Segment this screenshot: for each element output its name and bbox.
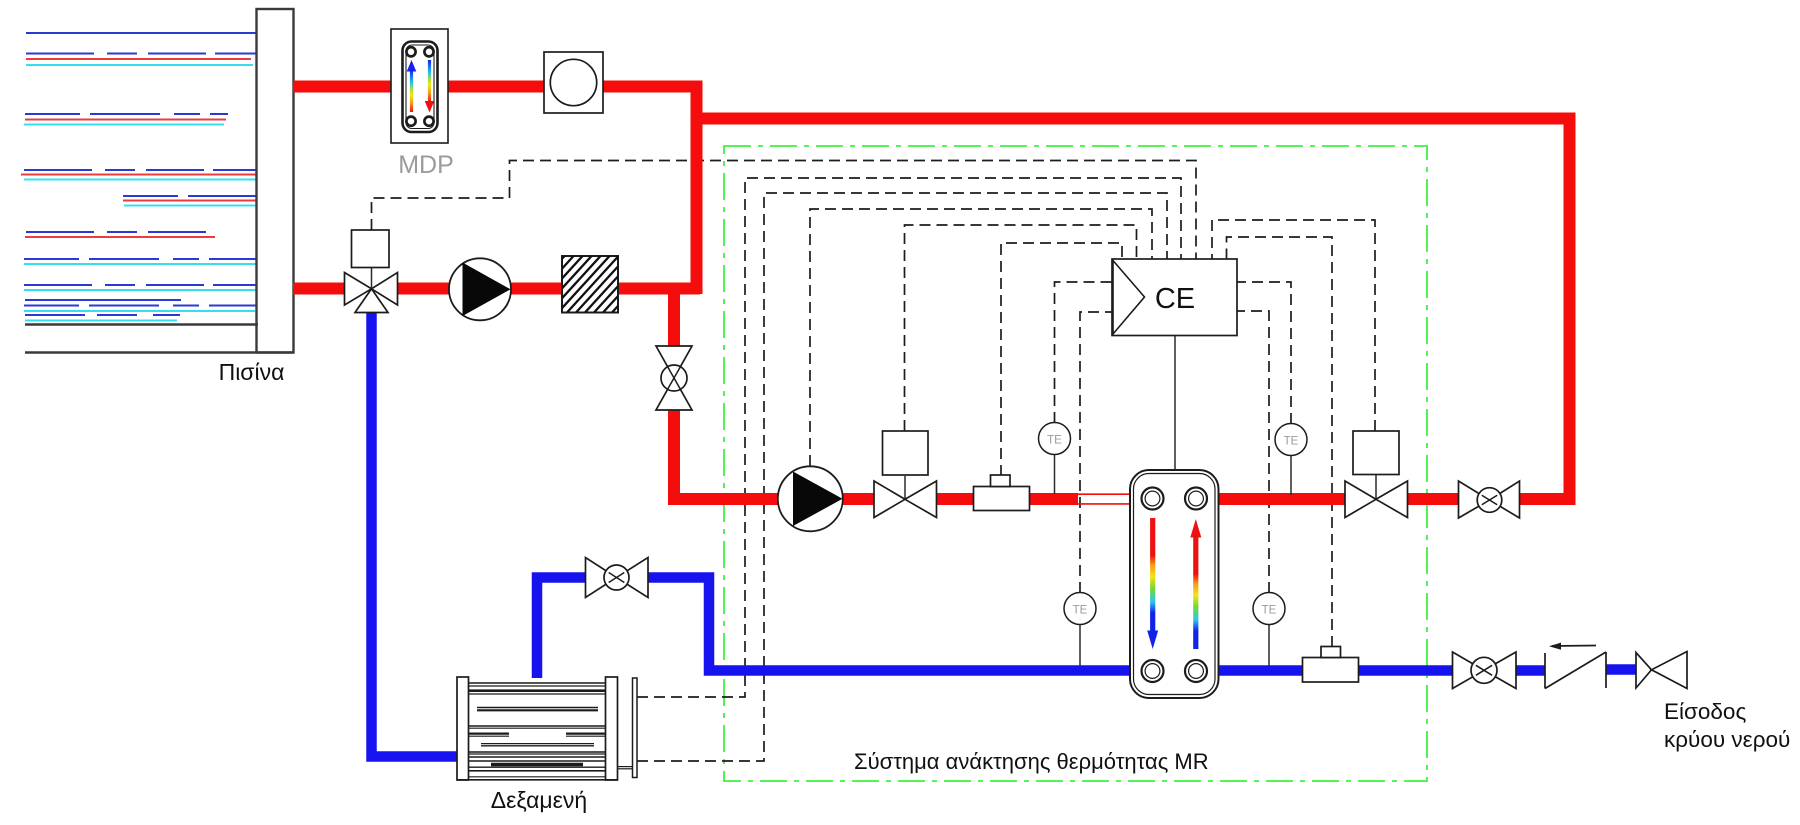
flow switch FS1: [974, 475, 1030, 511]
storage tank (heat exchanger coil vessel): [457, 677, 637, 780]
TE1 stem: [1054, 450, 1056, 494]
temperature sensor TE1: [1039, 423, 1071, 455]
wire: tank sensor A to CE: [637, 178, 1181, 697]
red pipe: pool mid outlet: [293, 283, 345, 295]
svg-text:κρύου νερού: κρύου νερού: [1664, 727, 1790, 752]
wire: control valve V3 actuator to CE: [1212, 220, 1375, 431]
valve V2: [874, 481, 937, 518]
wire: TE2 to CE: [1080, 312, 1112, 593]
red pipe: FS1 to thin section: [1029, 493, 1078, 505]
valve V6 (red, with circle): [1459, 481, 1520, 518]
blue pipe: HX to flow switch FS2: [1218, 665, 1303, 676]
circulator unit (circle in square): [544, 52, 603, 113]
check valve: [1545, 643, 1606, 689]
MDP bolt bottom-right: [424, 117, 433, 126]
HX1 port top-left: [1142, 488, 1164, 510]
wire: 3-way valve actuator to CE: [372, 161, 1197, 260]
red pipe: valve V2 to flow switch FS1: [936, 493, 974, 505]
svg-text:Πισίνα: Πισίνα: [219, 359, 285, 385]
valve V3 actuator stem: [1375, 475, 1377, 500]
red pipe: pump P2 to valve V2: [842, 493, 875, 505]
red pipe: filter to corner: [618, 283, 700, 295]
wire: tank sensor B to CE: [637, 193, 1167, 761]
wire: TE4 to CE: [1237, 311, 1269, 593]
HX1 hot side arrow (down): [1150, 518, 1155, 631]
blue pipe: tank top up to valve V4: [537, 578, 586, 679]
valve V2 actuator box: [883, 431, 929, 475]
HX1 cold side arrow (up): [1193, 537, 1198, 649]
red pipe: valve V1 down to lower run: [674, 409, 778, 499]
svg-text:CE: CE: [1155, 283, 1195, 315]
pool floor inner line: [25, 323, 258, 325]
temperature sensor TE2: [1064, 593, 1096, 625]
MDP bolt bottom-left: [406, 117, 415, 126]
MDP down arrow: [428, 60, 431, 102]
tank sensor tap lines: [618, 766, 633, 768]
inlet valve V7: [1636, 652, 1687, 689]
pump P2: [778, 466, 843, 531]
wire: flow switch FS2 to CE: [1227, 237, 1333, 647]
valve V3: [1345, 481, 1408, 518]
MDP bolt top-left: [406, 47, 415, 56]
3-way valve actuator box: [352, 230, 390, 268]
red pipe: valve V3 to hand valve: [1407, 493, 1459, 505]
wire: TE1 to CE: [1055, 282, 1113, 423]
plate heat exchanger HX1: [1130, 470, 1219, 698]
HX1 port bottom-right: [1185, 660, 1207, 682]
valve V3 actuator box: [1353, 431, 1399, 475]
green boundary of MR heat recovery system: [724, 146, 1427, 781]
red pipe: HX outlet to valve V3: [1218, 493, 1346, 505]
3-way actuator stem: [371, 268, 373, 290]
blue pipe: check valve to inlet valve: [1606, 664, 1637, 675]
svg-text:Δεξαμενή: Δεξαμενή: [491, 787, 587, 813]
HX1 port bottom-left: [1142, 660, 1164, 682]
valve V5 (blue, with circle): [1453, 652, 1517, 689]
blue pipe: 3way valve down and to tank: [372, 312, 459, 757]
valve V2 actuator stem: [904, 476, 906, 499]
blue pipe: valve V4 to corner and bottom run to HX: [648, 578, 1140, 671]
TE2 stem: [1079, 620, 1081, 666]
svg-text:Είσοδος: Είσοδος: [1664, 699, 1746, 724]
CE to HX signal line: [1174, 335, 1176, 470]
pump P1: [449, 258, 511, 320]
red pipe: thin double line into HX: [1078, 494, 1134, 504]
valve V4 (blue, with circle): [586, 558, 649, 598]
TE4 stem: [1268, 620, 1270, 666]
flow switch FS2: [1303, 647, 1359, 683]
blue pipe: FS2 to valve V5: [1357, 665, 1453, 676]
wire: flow switch FS1 to CE: [1001, 243, 1122, 476]
svg-text:TE: TE: [1284, 436, 1299, 448]
valve V1 (vertical): [656, 346, 692, 410]
red pipe: 3way to pump P1: [397, 283, 450, 295]
wire: TE3 to CE: [1237, 282, 1291, 424]
pool water lines: [21, 33, 257, 321]
TE3 stem: [1290, 452, 1292, 495]
temperature sensor TE3: [1275, 424, 1307, 456]
pool floor outer line: [25, 351, 294, 353]
MDP up arrow: [410, 70, 413, 112]
svg-text:TE: TE: [1073, 605, 1088, 617]
red pipe: down leg to valve V1: [668, 283, 680, 347]
pool wall: [257, 9, 294, 353]
svg-text:Σύστημα ανάκτησης θερμότητας M: Σύστημα ανάκτησης θερμότητας MR: [854, 749, 1209, 774]
CE controller U1: [1112, 259, 1237, 336]
HX1 port top-right: [1185, 488, 1207, 510]
red pipe: top run to right side and down to valve: [697, 119, 1570, 500]
svg-text:TE: TE: [1262, 605, 1277, 617]
red pipe: pump P1 to filter: [510, 283, 562, 295]
svg-text:TE: TE: [1047, 435, 1062, 447]
MDP heat exchanger unit: [391, 29, 448, 143]
wire: pump P2 to CE: [810, 209, 1152, 466]
wire: control valve V2 actuator to CE: [905, 225, 1137, 431]
filter (hatched): [499, 250, 687, 318]
MDP bolt top-right: [424, 47, 433, 56]
blue pipe: valve V5 to check valve: [1516, 665, 1545, 676]
svg-text:MDP: MDP: [398, 151, 454, 179]
red pipe: pool top outlet to MDP and down: [293, 87, 697, 295]
3-way mixing valve: [345, 273, 398, 313]
temperature sensor TE4: [1253, 593, 1285, 625]
